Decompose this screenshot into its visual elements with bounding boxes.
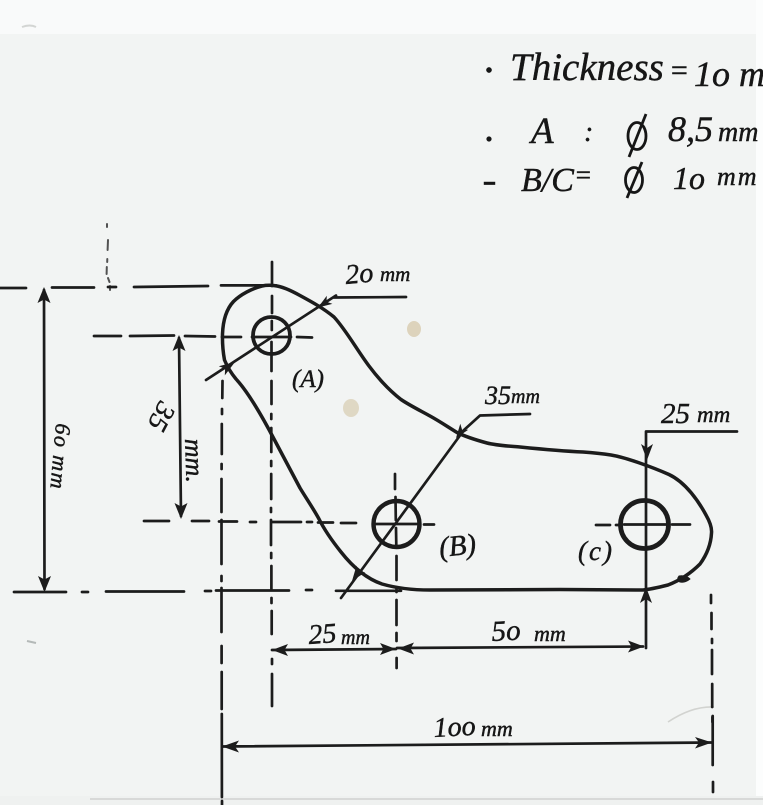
svg-text:mm: mm [697, 402, 730, 427]
svg-text:25: 25 [661, 398, 690, 430]
svg-text:mm: mm [534, 621, 566, 646]
svg-text:Thickness: Thickness [510, 46, 664, 89]
svg-text:mm: mm [511, 386, 540, 408]
svg-text:=: = [574, 160, 592, 190]
svg-text:mm: mm [380, 262, 410, 286]
svg-text:1oo: 1oo [433, 711, 477, 744]
svg-text:A: A [528, 111, 554, 152]
svg-text:mm: mm [341, 627, 370, 649]
svg-text:2o: 2o [344, 258, 375, 291]
svg-text:1o: 1o [673, 160, 705, 196]
svg-text:5o: 5o [491, 615, 522, 648]
svg-text:=: = [669, 54, 689, 87]
svg-text:25: 25 [307, 618, 337, 651]
svg-text:mm: mm [718, 117, 758, 148]
svg-text:mm.: mm. [179, 438, 210, 483]
svg-text:8,5: 8,5 [668, 109, 713, 149]
svg-text:(A): (A) [292, 366, 324, 393]
svg-text::: : [584, 117, 593, 148]
svg-text:(c): (c) [578, 536, 614, 566]
svg-text:1o m: 1o m [694, 54, 763, 94]
svg-text:mm: mm [717, 162, 759, 191]
svg-text:(B): (B) [437, 528, 477, 564]
svg-text:mm: mm [481, 716, 513, 741]
svg-text:B/C: B/C [521, 162, 574, 199]
svg-text:35: 35 [484, 381, 511, 410]
